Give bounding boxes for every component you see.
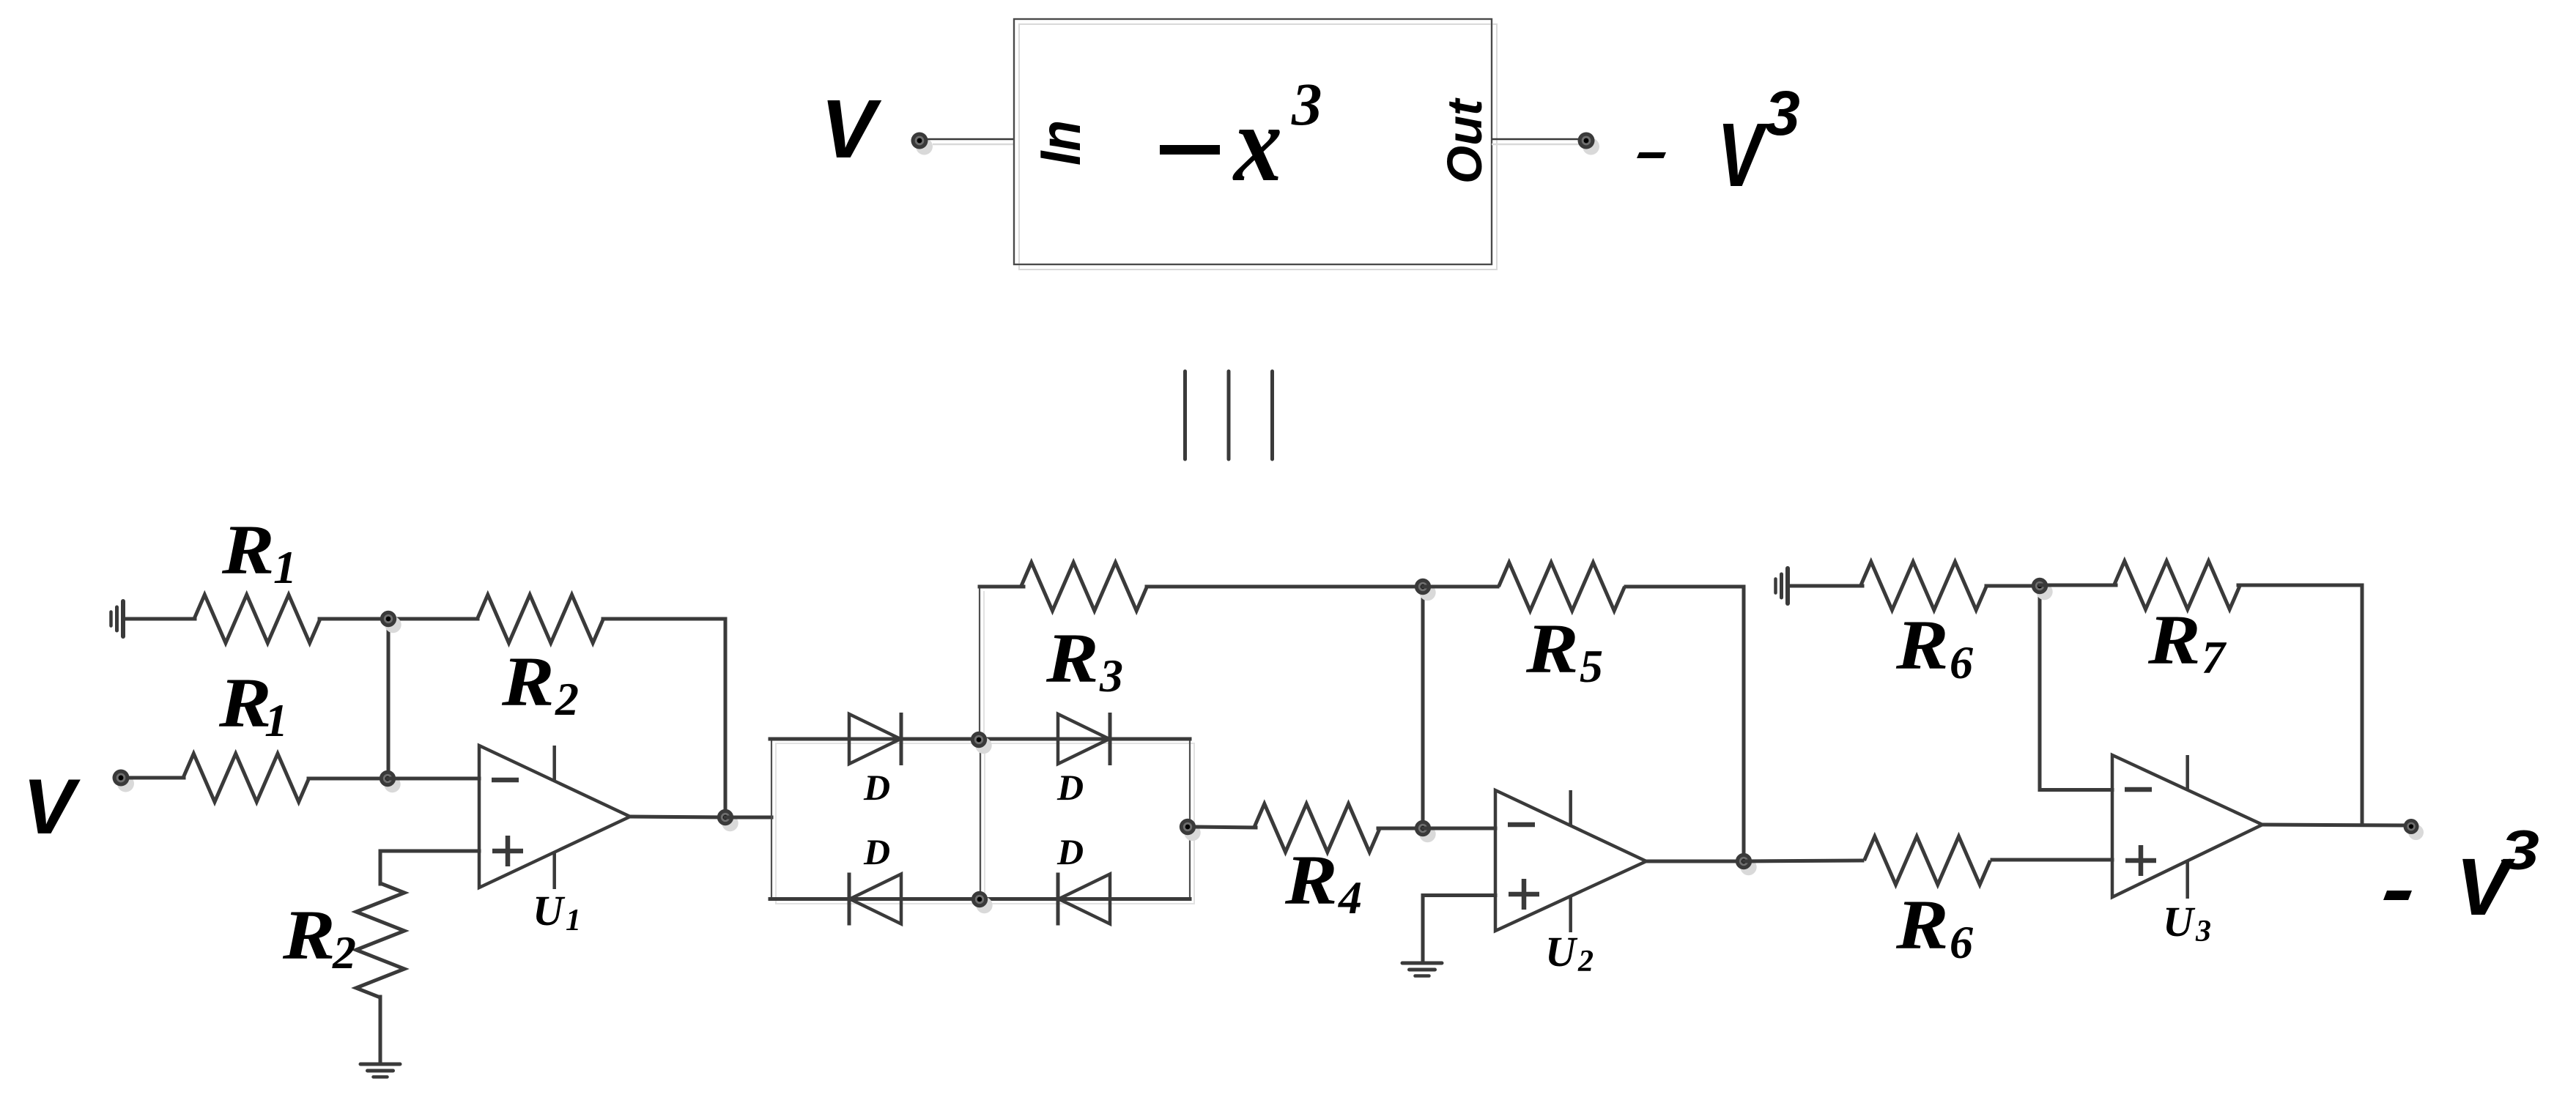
svg-text:1: 1 [264,694,288,746]
wire node F to U2 inverting input [1423,827,1495,830]
svg-text:6: 6 [1950,636,1973,688]
resistor R2 top [478,595,604,643]
resistor R1 bottom [183,754,309,802]
svg-text:V: V [23,762,81,850]
diode D1 [849,713,901,765]
resistor R7 [2114,561,2240,609]
diode D2 [1058,713,1110,765]
output label V [1717,105,1768,206]
wire R2a feedback [603,619,725,817]
label R7 [2147,601,2227,683]
label R6 bottom [1895,886,1973,968]
wire R6 top to node H [1986,584,2040,588]
node D top [971,732,992,754]
wire block to output terminal [1492,139,1583,144]
wire R7 feedback to output [2238,585,2362,825]
wire diode row bottom [770,897,1190,901]
wire node A to R2a [388,617,478,621]
label R5 [1525,610,1603,692]
label R6 top [1895,606,1973,688]
diode box 2 [980,739,1190,899]
svg-text:R: R [1895,886,1949,964]
svg-text:R: R [501,643,555,721]
svg-text:4: 4 [1338,872,1362,924]
svg-text:D: D [1056,767,1084,808]
node B [380,770,401,792]
output terminal V3 [2404,819,2424,840]
svg-text:R: R [1284,841,1338,919]
svg-text:5: 5 [1580,640,1603,692]
svg-text:2: 2 [555,673,579,725]
op-amp U3 [2112,755,2262,899]
resistor R4 [1254,804,1380,852]
wire node A to node B [387,619,391,778]
input terminal V [113,770,135,792]
wire U3 output to terminal [2262,825,2404,825]
node F [1415,820,1436,842]
wire U1 noninverting input [380,851,479,884]
diode box 1 [771,739,980,899]
wire R1b to node B [308,777,388,781]
ground G2 [360,1064,400,1077]
output minus dash bottom [2383,891,2412,900]
resistor R1 top [194,595,320,643]
wire R1a to node A [319,617,388,621]
ground G3 [1402,963,1442,976]
wire R5 to U2 output [1626,587,1744,861]
svg-text:3: 3 [2195,915,2211,948]
resistor R5 [1499,562,1625,611]
svg-text:6: 6 [1950,916,1973,968]
wire R3 left [980,585,1024,589]
wire node H to R7 [2040,584,2116,587]
node C [717,809,739,831]
node H [2032,578,2053,600]
svg-text:D: D [1056,831,1084,872]
wire R3 to node E [1147,585,1423,589]
wire node E to R5 [1423,585,1498,589]
wire R2b to ground [379,997,382,1063]
node A [380,611,401,633]
svg-text:R: R [1895,606,1949,684]
svg-text:V: V [821,83,882,175]
svg-text:In: In [1028,120,1092,166]
svg-text:x: x [1232,83,1282,204]
output minus dash [1637,152,1666,158]
label U1 [533,887,581,937]
label U2 [1545,928,1594,978]
diode D4 [1058,873,1110,926]
svg-text:U: U [2163,898,2196,945]
svg-text:3: 3 [1765,78,1800,149]
wire U1 output to node C [630,817,725,817]
svg-text:D: D [863,767,890,808]
wire V terminal to R1b [129,776,184,780]
op-amp U2 [1495,790,1646,932]
svg-text:R: R [221,511,275,589]
label U3 [2163,898,2211,948]
ground G1 [111,601,124,636]
svg-text:1: 1 [566,904,581,937]
svg-text:R: R [218,664,272,742]
wire U2 output [1646,860,1744,863]
wire node G to R6 bottom [1744,861,1862,861]
wire node C to diode block [725,816,771,820]
svg-text:7: 7 [2202,631,2227,683]
resistor R6 top [1861,562,1987,610]
wire node H to U3 inverting input [2040,586,2112,790]
svg-text:1: 1 [273,541,297,593]
node E [1415,579,1436,601]
label R1 bottom [218,664,288,746]
wire diode row top [770,737,1190,741]
label R1 top [221,511,297,593]
wire diode out to R4 [1196,827,1256,828]
input terminal [911,133,933,155]
wire node B to U1 inverting input [388,777,479,781]
wire R4 to node F [1378,827,1423,830]
diode D3 [849,873,901,926]
resistor R6 bottom [1865,836,1991,885]
node D out [1180,819,1201,841]
diode box shadows [776,591,1194,904]
svg-text:D: D [863,831,890,872]
label R2 top [501,643,579,725]
svg-text:U: U [1545,928,1578,975]
output terminal [1578,133,1600,155]
op-amp U1 [479,746,630,889]
svg-text:R: R [282,896,336,974]
function block -x^3 box [1014,19,1497,270]
wire R3 tap down [979,587,980,739]
svg-text:Out: Out [1437,97,1492,184]
resistor R2 bottom [356,883,404,997]
wire input terminal to block [928,139,1014,144]
svg-text:R: R [1525,610,1579,688]
label R2 bottom [282,896,356,978]
svg-text:2: 2 [1577,945,1594,978]
svg-text:U: U [533,887,566,934]
wire node E down to node F [1421,587,1425,828]
ground G4 [1776,568,1788,603]
label R3 [1045,620,1123,702]
svg-text:V: V [1717,105,1768,206]
svg-text:R: R [2147,601,2201,679]
node G [1736,853,1757,875]
wire G4 to R6 top [1789,584,1862,588]
node D bottom [971,891,993,913]
svg-text:3: 3 [1099,650,1123,702]
equivalence bars [1185,371,1273,459]
wire R6 bottom to U3 [1992,858,2112,862]
resistor R3 [1021,562,1147,611]
svg-text:3: 3 [1291,70,1322,138]
svg-text:2: 2 [332,926,356,978]
wire U2 noninverting input [1423,896,1495,963]
svg-text:R: R [1045,620,1099,697]
label R4 [1284,841,1362,924]
block minus sign [1160,145,1220,155]
wire G1 to R1a [125,617,195,621]
output exponent 3 bottom [2501,820,2539,882]
svg-text:3: 3 [2501,820,2539,882]
